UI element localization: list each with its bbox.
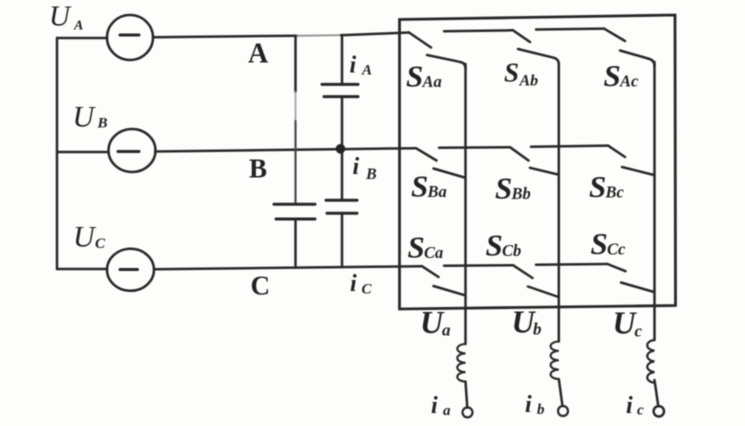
svg-text:i: i	[525, 392, 532, 418]
svg-text:B: B	[97, 116, 108, 132]
wire source UA to node A line	[153, 36, 297, 38]
svg-text:A: A	[361, 63, 372, 79]
wire bus to source UB	[57, 151, 108, 154]
svg-text:S: S	[504, 58, 519, 88]
source UC	[107, 249, 154, 291]
svg-text:U: U	[73, 221, 97, 254]
label ia	[431, 393, 451, 419]
label Uc	[613, 305, 643, 341]
svg-text:c: c	[635, 322, 643, 341]
wire phase B segment between SBb and SBc	[531, 146, 608, 147]
node B junction	[336, 144, 346, 154]
label Ub	[512, 304, 542, 340]
wire filter branch 1 lower (cap CCA to C)	[294, 219, 297, 268]
wire filter branch 2 middle (cap CAB to B)	[341, 97, 344, 200]
wire bus to source UC	[57, 268, 107, 271]
switch SAc	[604, 29, 655, 66]
wire phase C segment between SCb and SCc	[536, 263, 608, 266]
svg-text:U: U	[73, 101, 97, 134]
label iA	[350, 53, 373, 79]
label iC	[350, 271, 373, 298]
svg-text:Ca: Ca	[424, 243, 443, 262]
capacitor CAB	[322, 84, 358, 96]
label UA	[49, 1, 83, 34]
switch SCb	[513, 265, 559, 297]
svg-text:C: C	[251, 271, 271, 301]
svg-text:i: i	[353, 154, 360, 180]
switch SBa	[416, 148, 465, 177]
svg-text:S: S	[604, 58, 621, 93]
svg-text:S: S	[408, 230, 425, 265]
svg-text:U: U	[49, 1, 72, 33]
terminal a	[463, 407, 473, 417]
wire left neutral bus	[56, 38, 59, 269]
svg-text:S: S	[591, 226, 608, 261]
svg-text:Ac: Ac	[619, 72, 639, 91]
svg-text:b: b	[533, 320, 542, 339]
label switch SAc	[604, 58, 640, 93]
svg-text:c: c	[637, 403, 644, 419]
svg-text:S: S	[411, 169, 428, 204]
svg-text:Bb: Bb	[511, 184, 531, 203]
label switch SBb	[495, 171, 531, 206]
label switch SCc	[591, 226, 627, 261]
svg-text:A: A	[248, 39, 269, 70]
svg-text:a: a	[443, 403, 451, 419]
source UA	[107, 15, 153, 60]
label switch SAb	[504, 58, 538, 90]
label iB	[353, 154, 378, 183]
wire filter branch 2 bottom (cap CBC to C)	[341, 213, 344, 267]
capacitor CCA	[274, 204, 315, 219]
wire La to terminal a	[466, 382, 468, 408]
terminal b	[558, 406, 568, 416]
label switch SCa	[408, 230, 444, 265]
svg-text:i: i	[350, 53, 357, 79]
svg-text:A: A	[73, 19, 83, 34]
switch SBc	[608, 146, 654, 175]
switch SBb	[510, 147, 558, 174]
label switch SCb	[486, 228, 522, 263]
source UB	[109, 129, 156, 172]
svg-text:a: a	[442, 321, 451, 340]
wire phase A segment between SAa and SAb	[444, 29, 513, 32]
wire bus to source UA	[57, 37, 107, 40]
switch SAa	[409, 33, 466, 69]
svg-text:i: i	[626, 393, 633, 419]
wire phase B segment between SBa and SBb	[439, 146, 510, 149]
svg-text:Ab: Ab	[519, 73, 539, 90]
label switch SBa	[411, 169, 447, 204]
wire filter branch 2 top (A to cap CAB)	[341, 35, 344, 85]
svg-text:B: B	[365, 166, 377, 183]
svg-text:i: i	[350, 271, 357, 297]
svg-text:Aa: Aa	[422, 72, 442, 91]
wire phase A segment between SAb and SAc	[536, 27, 604, 30]
svg-text:i: i	[431, 393, 438, 419]
svg-text:S: S	[495, 171, 512, 206]
svg-text:Cc: Cc	[607, 240, 626, 259]
svg-text:b: b	[537, 402, 545, 418]
label UB	[73, 101, 108, 134]
svg-text:S: S	[589, 169, 606, 204]
label ib	[525, 392, 545, 418]
label UC	[73, 221, 106, 254]
output column a	[464, 64, 467, 344]
inductor Lc	[647, 340, 654, 383]
output column b	[558, 64, 561, 342]
svg-text:C: C	[362, 282, 373, 298]
svg-text:S: S	[406, 59, 423, 94]
svg-text:S: S	[486, 228, 503, 263]
label Ua	[420, 304, 451, 340]
switch SAb	[513, 30, 559, 64]
terminal c	[654, 406, 664, 416]
switch SCa	[422, 266, 465, 295]
capacitor CBC	[326, 200, 357, 213]
svg-text:B: B	[249, 154, 267, 184]
wire Lb to terminal b	[559, 379, 563, 406]
wire phase C segment between SCa and SCb	[444, 264, 513, 267]
svg-text:Bc: Bc	[605, 183, 625, 202]
wire source UB to node B line	[155, 148, 416, 151]
wire Lc to terminal c	[655, 380, 659, 406]
inductor La	[457, 344, 465, 382]
wire source UC to node C line	[154, 266, 422, 269]
label switch SBc	[589, 169, 625, 204]
matrix converter box	[400, 15, 676, 309]
wire filter branch 1 upper (A to cap CCA)	[294, 36, 297, 92]
label ic	[626, 393, 644, 419]
inductor Lb	[551, 342, 559, 380]
svg-text:C: C	[95, 236, 106, 252]
switch SCc	[608, 264, 655, 292]
svg-text:Cb: Cb	[502, 241, 521, 260]
label switch SAa	[406, 59, 442, 94]
output column c	[653, 62, 656, 340]
svg-text:Ba: Ba	[427, 182, 447, 201]
